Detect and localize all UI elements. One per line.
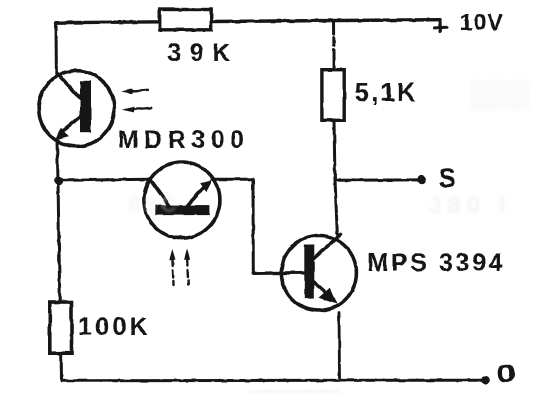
wire: Q3 emitter down to bottom rail — [338, 313, 341, 378]
Q3 emitter stroke with arrowhead — [313, 281, 338, 304]
svg-text:10V: 10V — [460, 9, 504, 35]
wire: node A right to Q2 — [58, 179, 150, 180]
wire: R3 bottom to bottom rail — [60, 353, 63, 380]
terminal dot 0 — [481, 376, 490, 385]
wire: Q1 emitter down to node A — [57, 141, 58, 180]
light arrow 1 into Q2 — [169, 249, 175, 285]
light arrow 1 into Q1 — [122, 89, 148, 94]
wire top rail (+10V bus) — [56, 20, 440, 23]
phototransistor Q2 (second half of MDR300) body circle — [144, 162, 220, 238]
wire: left vertical from top rail to Q1 collector — [55, 23, 58, 74]
light arrow 2 into Q2 — [184, 249, 190, 285]
transistor Q3 MPS3394 body circle — [281, 236, 356, 311]
svg-text:MPS 3394: MPS 3394 — [368, 249, 506, 277]
phototransistor Q1 (MDR300) body circle — [39, 71, 115, 147]
Q3 base bar — [304, 245, 314, 299]
light arrow 2 into Q1 — [122, 107, 152, 113]
wire: corner right to Q3 base — [253, 271, 304, 275]
svg-text:S: S — [439, 162, 456, 194]
node A junction dot — [54, 176, 63, 185]
resistor R2 5,1K body — [322, 70, 344, 121]
power terminal plus mark (+10V) — [435, 20, 448, 32]
faint scan ghost marks (bleed-through) — [128, 80, 530, 393]
Q2 base bar — [155, 205, 209, 215]
wire: R2 bottom to node S — [334, 120, 335, 180]
label 0 (ground terminal) — [496, 359, 516, 387]
svg-text:MDR300: MDR300 — [118, 126, 250, 154]
resistor R1 39K body — [160, 10, 212, 30]
wire: dashed segment from top rail down to R2 — [332, 21, 336, 70]
terminal dot S — [417, 175, 426, 184]
svg-text:39K: 39K — [168, 39, 239, 67]
svg-text:100K: 100K — [78, 313, 151, 341]
svg-text:08C: 08C — [128, 192, 180, 217]
Q2 emitter stroke with arrowhead — [188, 180, 213, 205]
wire: Q2 emitter to corner — [212, 178, 253, 181]
label S (output node) — [439, 162, 456, 194]
svg-text:J80 l: J80 l — [428, 192, 511, 219]
svg-text:5,1K: 5,1K — [355, 79, 418, 107]
wire: node S lead to terminal — [335, 178, 421, 182]
svg-text:0: 0 — [496, 359, 516, 387]
Q3 collector stroke — [313, 235, 341, 260]
Q1 emitter stroke with arrowhead — [55, 116, 82, 141]
Q2 collector stroke — [150, 179, 169, 205]
wire: bottom rail (0V bus) — [62, 379, 486, 383]
Q1 collector stroke — [57, 73, 81, 99]
wire: vertical down from corner — [252, 179, 255, 273]
Q1 base bar — [80, 81, 91, 132]
wire: node A down to R3 — [58, 180, 60, 302]
resistor R3 100K body — [50, 302, 72, 353]
wire: node S to Q3 collector — [335, 180, 337, 234]
